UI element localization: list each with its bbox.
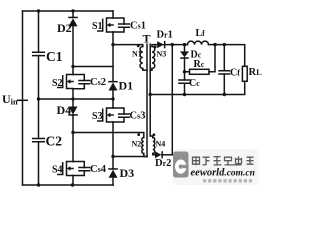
node A (S1 source) — [111, 43, 114, 46]
wire N4 top lead — [150, 136, 153, 138]
wire S4 source to bottom rail — [72, 176, 74, 186]
wire capacitor column upper — [38, 11, 40, 52]
winding N2 (lower primary) — [142, 138, 144, 154]
diode Dr2 — [155, 151, 161, 158]
wire output top rail — [209, 45, 245, 67]
resistor Rc leads — [185, 45, 216, 72]
source Uin terminal tick — [18, 99, 28, 101]
svg-text:C1: C1 — [46, 49, 63, 64]
transistor S2 — [58, 75, 73, 90]
wire mid node to S3 drain — [112, 99, 114, 108]
svg-text:Cs4: Cs4 — [90, 164, 107, 175]
node secondary center tap — [149, 93, 152, 96]
wire N2 bottom lead — [144, 154, 147, 157]
watermark chinese title 电子工程世界 (drawn strokes) — [193, 156, 254, 165]
svg-text:eeworld.com.cn: eeworld.com.cn — [191, 168, 255, 179]
winding N4 (lower secondary) — [153, 138, 155, 154]
wire capacitor column middle — [38, 56, 40, 139]
svg-text:N4: N4 — [156, 140, 166, 149]
wire S1 drain from top rail — [112, 11, 114, 18]
wire node S2-drain to D1 cathode — [73, 66, 113, 68]
svg-text:N3: N3 — [157, 50, 167, 59]
svg-text:Dr2: Dr2 — [155, 158, 171, 169]
watermark logo box — [173, 152, 189, 178]
svg-text:S1: S1 — [92, 21, 103, 32]
wire D1 anode to mid node — [112, 91, 114, 100]
watermark logo C glyph — [175, 160, 186, 174]
diode D3 — [109, 170, 118, 178]
wire D4 to node B — [72, 115, 74, 133]
diode Dc branch lead — [184, 45, 186, 72]
wire S2 source to mid node — [72, 89, 74, 99]
wire outer leg top (to D2) — [72, 11, 74, 18]
wire S3-source node to winding interconnect — [113, 156, 147, 158]
node Cc bottom — [183, 93, 186, 96]
resistor RL body — [242, 66, 247, 81]
node rectifier output / riser — [171, 43, 174, 46]
wire bottom rail — [23, 184, 114, 186]
node top rail / D2 leg — [71, 9, 74, 12]
svg-text:N2: N2 — [132, 140, 142, 149]
wire N3 bottom lead — [150, 69, 152, 71]
svg-text:Cs3: Cs3 — [130, 111, 146, 122]
wire node A to D1 — [112, 45, 114, 82]
capacitor Cs3 — [113, 108, 129, 122]
node top rail / C1 — [37, 9, 40, 12]
svg-text:Cf: Cf — [230, 68, 240, 79]
wire N1 bottom lead — [143, 69, 147, 71]
svg-text:D3: D3 — [120, 166, 135, 180]
wire S2 drain — [72, 67, 74, 75]
node mid rail / D1 anode — [111, 97, 114, 100]
node C1/C2 midpoint — [37, 97, 40, 100]
node Dc branch — [183, 43, 186, 46]
svg-text:D4: D4 — [57, 103, 72, 117]
node Cf bottom — [223, 93, 226, 96]
wire N3 top lead to Dr1 — [152, 45, 157, 47]
node mid rail / S2 source — [71, 97, 74, 100]
node B (D4 cathode) — [71, 131, 74, 134]
node Cf top — [223, 43, 226, 46]
wire Dr2 cathode to riser — [162, 154, 173, 156]
transistor S1 — [98, 18, 113, 32]
wire top rail — [23, 10, 114, 12]
node S2 drain — [71, 65, 74, 68]
transformer T upper core / interconnect left — [146, 44, 148, 156]
diode D2 — [69, 18, 78, 26]
capacitor C1 — [33, 52, 45, 55]
node Dc/Rc/Cc junction — [183, 70, 186, 73]
winding N3 (upper secondary) — [152, 47, 155, 69]
wire node to D3 — [112, 157, 114, 170]
diode D4 — [69, 107, 78, 115]
polarity dot N4 — [153, 133, 156, 136]
node S3 source tap — [111, 155, 114, 158]
svg-text:Dr1: Dr1 — [157, 30, 173, 41]
wire N4 bottom lead to Dr2 — [153, 154, 155, 155]
svg-text:N1: N1 — [132, 50, 142, 59]
capacitor Cs2 — [73, 75, 90, 89]
svg-text:S3: S3 — [92, 111, 103, 122]
transformer T core / secondary interconnect right — [149, 44, 151, 136]
wire RL bottom to output bottom rail — [150, 81, 245, 94]
svg-text:D1: D1 — [119, 79, 134, 93]
wire rectified-node riser (Dr1/Dr2 common) — [171, 45, 173, 155]
capacitor Cc plates — [179, 80, 190, 83]
capacitor Cs4 — [73, 162, 90, 176]
svg-text:Uin: Uin — [2, 92, 18, 107]
transistor S3 — [98, 108, 113, 122]
wire node B to lower primary N2 top — [73, 133, 144, 138]
wire mid rail (C1/C2 midpoint) — [39, 98, 114, 100]
svg-text:RL: RL — [249, 67, 263, 78]
capacitor Cf plates — [219, 71, 230, 74]
svg-text:S4: S4 — [52, 165, 63, 176]
node bottom rail / S4 source — [71, 183, 74, 186]
wire left input bus — [22, 11, 24, 185]
svg-text:Lf: Lf — [196, 28, 206, 39]
capacitor Cs1 — [113, 18, 129, 32]
inductor Lf — [188, 41, 209, 45]
watermark small red tagline — [203, 179, 252, 182]
node Rc top — [213, 43, 216, 46]
winding N1 (upper primary) — [140, 47, 143, 69]
polarity dot N3 — [154, 46, 157, 49]
capacitor Cf leads — [223, 45, 225, 95]
svg-text:T: T — [143, 32, 151, 46]
wire node B to S4 drain — [72, 133, 74, 162]
wire node A to transformer primary N1 top — [113, 45, 143, 47]
svg-text:C2: C2 — [46, 134, 63, 149]
polarity dot N1 — [137, 45, 140, 48]
svg-text:Rc: Rc — [194, 59, 205, 70]
capacitor C2 — [33, 139, 45, 142]
svg-text:D2: D2 — [57, 21, 72, 35]
svg-text:Cs2: Cs2 — [90, 77, 106, 88]
node bottom rail / C2 — [37, 183, 40, 186]
diode Dc — [180, 51, 189, 57]
transistor S4 — [58, 162, 73, 176]
wire S3 source down to Dr2-tap node — [112, 122, 114, 157]
svg-text:Cc: Cc — [189, 78, 200, 89]
wire D2 to S2 drain node — [72, 27, 74, 67]
resistor Rc body — [190, 69, 210, 74]
capacitor Cc lead — [184, 72, 186, 95]
polarity dot N2 — [137, 133, 140, 136]
diode Dr1 — [157, 41, 164, 48]
diode D1 — [109, 83, 118, 91]
wire S1 source to node A — [112, 32, 114, 45]
svg-text:S2: S2 — [52, 78, 63, 89]
svg-text:Cs1: Cs1 — [130, 21, 146, 32]
wire secondary top: Dr1 anode feed — [164, 44, 188, 46]
wire capacitor column lower — [38, 142, 40, 185]
watermark eeworld background — [173, 149, 259, 185]
wire D3 anode to bottom rail — [112, 178, 114, 185]
wire mid node to D4 — [72, 99, 74, 107]
